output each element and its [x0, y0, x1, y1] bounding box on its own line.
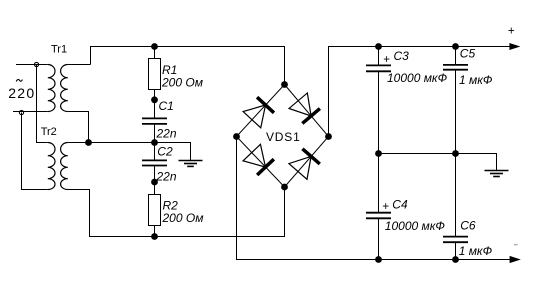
capacitor C5	[443, 65, 468, 70]
wire rail to C5	[455, 47, 457, 65]
node C2 R2	[151, 179, 158, 186]
svg-text:C6: C6	[460, 218, 476, 232]
capacitor C3	[366, 65, 391, 71]
node bridge top	[281, 81, 288, 88]
ground output	[485, 171, 509, 177]
capacitor C4	[366, 213, 391, 219]
wire top terminal to Tr2 primary top	[37, 65, 48, 143]
node bridge right	[325, 133, 332, 140]
label minus gray	[514, 244, 518, 246]
transformer Tr2 primary winding	[48, 143, 55, 190]
svg-text:22n: 22n	[156, 126, 177, 140]
wire mid rail to ground	[379, 154, 497, 171]
wire bridge minus to DC bottom rail	[237, 137, 512, 260]
resistor R2	[149, 195, 161, 226]
svg-text:+: +	[382, 201, 389, 213]
svg-text:+: +	[383, 54, 390, 66]
ground near C2	[179, 161, 203, 167]
svg-text:1 мкФ: 1 мкФ	[459, 244, 493, 258]
wire R1 to C1	[154, 90, 156, 119]
wire C3 to mid rail	[378, 71, 380, 153]
capacitor C6	[443, 237, 468, 243]
node C5 top	[452, 43, 459, 50]
svg-text:1 мкФ: 1 мкФ	[459, 73, 493, 87]
wire C6 to DC rail	[455, 242, 457, 259]
transformer Tr2 secondary winding	[61, 143, 68, 190]
transformer Tr1 primary winding	[48, 65, 55, 112]
wire bottom terminal to Tr2 primary bottom	[22, 113, 48, 190]
node R1 C1	[151, 96, 158, 103]
node top rail R1	[151, 43, 158, 50]
svg-text:C5: C5	[460, 47, 476, 61]
wire mid rail to C6	[455, 154, 457, 237]
diode bottom-right	[289, 149, 320, 180]
wire C4 to DC rail	[378, 218, 380, 259]
node C4 DC rail	[375, 256, 382, 263]
wire center tap to C1-C2 node	[68, 142, 155, 144]
capacitor C1	[142, 118, 167, 124]
capacitor C2	[142, 160, 167, 165]
svg-text:200 Ом: 200 Ом	[161, 75, 203, 89]
wire AC input top	[16, 64, 48, 66]
svg-text:10000 мкФ: 10000 мкФ	[387, 71, 448, 85]
wire C2 to R2	[154, 166, 156, 195]
transformer Tr1 secondary winding	[61, 65, 68, 112]
wire mid rail to C4	[378, 154, 380, 213]
wire Tr1 secondary top to top rail	[68, 64, 91, 66]
diode top-right	[289, 93, 320, 124]
svg-text:200 Ом: 200 Ом	[162, 211, 204, 225]
node C1 C2 center tap	[151, 139, 158, 146]
node bridge bottom	[281, 184, 288, 191]
wire Tr1 secondary bottom to center tap	[68, 112, 89, 143]
node C3 mid rail	[375, 150, 382, 157]
wire C5 to mid rail	[455, 70, 457, 154]
wire Tr2 secondary bottom to AC bottom rail	[68, 187, 285, 237]
wire rail to C3	[378, 47, 380, 66]
wire R2 to AC bottom rail	[154, 226, 156, 237]
svg-text:Tr2: Tr2	[41, 126, 57, 138]
svg-text:+: +	[508, 23, 515, 37]
node transformer center tap	[85, 139, 92, 146]
diode bridge VDS1 frame	[237, 85, 329, 188]
node C6 DC rail	[452, 256, 459, 263]
svg-text:C3: C3	[394, 49, 410, 63]
svg-text:C1: C1	[159, 99, 174, 113]
svg-text:C2: C2	[157, 144, 173, 158]
wire C1 to C2	[154, 124, 156, 160]
wire bridge plus to top right rail	[329, 47, 512, 137]
svg-text:VDS1: VDS1	[266, 130, 301, 144]
node R2 AC rail	[151, 233, 158, 240]
label ~	[16, 79, 22, 81]
diode bottom-left	[243, 144, 274, 175]
node C3 top	[375, 43, 382, 50]
svg-text:Tr1: Tr1	[51, 44, 67, 56]
node C5 mid rail	[452, 150, 459, 157]
input terminal top	[34, 62, 38, 66]
svg-text:C4: C4	[392, 198, 408, 212]
diode top-left	[243, 97, 274, 128]
svg-text:220: 220	[8, 85, 35, 101]
output arrow bottom	[510, 256, 521, 263]
input terminal bottom	[19, 110, 23, 114]
svg-text:10000 мкФ: 10000 мкФ	[385, 219, 446, 233]
wire AC input bottom	[13, 111, 48, 113]
resistor R1	[149, 59, 161, 90]
wire top rail	[91, 47, 285, 85]
wire node to ground	[155, 143, 191, 161]
node bridge left	[233, 133, 240, 140]
svg-text:22n: 22n	[156, 169, 177, 183]
wire rail to R1	[154, 47, 156, 59]
svg-text:R2: R2	[163, 198, 179, 212]
output arrow top	[509, 43, 520, 50]
